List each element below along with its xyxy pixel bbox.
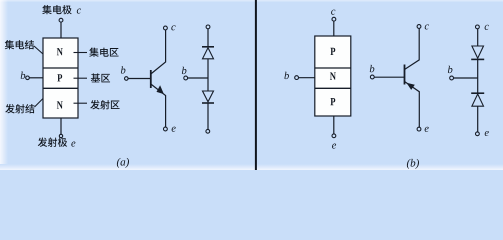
base wire (a box) (30, 77, 44, 79)
wire D2 to node e (a) (207, 103, 209, 129)
NPN structure box (a) (43, 38, 78, 118)
node c terminal circle (a) (59, 18, 63, 22)
label b diode chain (b) (448, 66, 453, 73)
node e circle diode chain (b) (476, 132, 480, 136)
emitter junction line J2 (a) (43, 87, 78, 89)
region label P (collector region, b) (330, 98, 335, 105)
diode D2 b-e junction (a): triangle (pointing down) (203, 91, 214, 102)
node b circle Q2 (370, 75, 374, 79)
region label N (base region, b) (330, 72, 336, 79)
diode D4 e-b junction (b): cathode bar (471, 92, 484, 94)
diode D4 triangle (pointing up) (472, 94, 484, 106)
label e (b box) (332, 144, 336, 149)
transistor Q1 NPN symbol: label b (121, 66, 126, 73)
emitter wire (b box) (333, 116, 335, 134)
node c circle (b box) (332, 17, 336, 21)
node e circle Q2 (417, 127, 421, 131)
node e circle (b box) (332, 134, 336, 138)
node c circle Q1 (164, 26, 168, 30)
node b circle (b box) (295, 76, 299, 80)
leader tick base region (74, 77, 88, 79)
junction line J2 (b) (315, 87, 351, 89)
label 发射极 e (emitter electrode) (38, 138, 76, 147)
label c (b box) (331, 10, 335, 15)
diode D3 cathode bar (471, 58, 484, 60)
base bar Q2 (404, 65, 406, 85)
collector junction line J1 (a) (43, 67, 78, 69)
label b (b box) (284, 72, 289, 79)
label 集电结 (collector junction) (5, 40, 34, 49)
region label N (collector region) (57, 48, 63, 55)
diode D3 c-b junction (b): triangle (pointing down) (472, 46, 484, 58)
label 发射区 (emitter region) (90, 100, 119, 109)
diode D2 cathode bar (202, 102, 214, 104)
wire c to D1 (a) (207, 29, 209, 47)
region label P (base region) (57, 74, 62, 81)
node e terminal circle (a) (59, 134, 62, 137)
transistor Q2 PNP symbol: label b (370, 65, 375, 72)
caption (a) (117, 158, 129, 168)
label 集电极 c (collector electrode) (42, 5, 81, 14)
node b circle diode chain (a) (184, 76, 188, 80)
label b diode chain (a) (182, 67, 187, 74)
wire b to chain (b) (454, 77, 478, 79)
label b and base terminal (a box) (21, 72, 26, 79)
base wire (b box) (299, 77, 315, 79)
label 集电区 (collector region) (89, 48, 118, 57)
label c Q2 (425, 24, 429, 29)
label 发射结 (emitter junction) (5, 104, 34, 113)
base wire Q1 (128, 78, 151, 80)
region label P (emitter region, b) (330, 48, 335, 55)
caption (b) (407, 159, 419, 169)
wire D1 to node b (a) (207, 59, 209, 91)
diode D1 triangle (pointing up) (203, 48, 214, 59)
label c Q1 (171, 25, 175, 30)
collector wire (b box) (333, 21, 335, 36)
panel divider (255, 0, 257, 170)
wire D4 to node e (b) (477, 106, 479, 132)
node b circle (a box) (26, 76, 30, 80)
wire D3 to node b (b) (477, 59, 479, 93)
node e circle diode chain (a) (206, 129, 210, 133)
base wire Q2 (374, 76, 404, 78)
wire c to D3 (b) (477, 29, 479, 46)
region label N (emitter region) (57, 101, 63, 108)
diode D1 b-c junction (a): cathode bar (202, 46, 214, 48)
node c circle Q2 (417, 25, 421, 29)
label c diode chain (b) (485, 25, 489, 30)
label e diode chain (b) (485, 131, 489, 136)
label e Q1 (172, 127, 176, 132)
emitter lead Q2 with PNP arrow (405, 82, 420, 128)
leader tick collector region (74, 52, 88, 54)
emitter wire (a) (60, 118, 62, 134)
leader line to collector junction (34, 46, 43, 54)
base bar Q1 (150, 70, 152, 88)
collector wire (a) (60, 22, 62, 38)
node c circle diode chain (a) (206, 25, 210, 29)
label e Q2 (425, 127, 429, 132)
node e circle Q1 (164, 127, 168, 131)
junction line J1 (b) (315, 67, 351, 69)
wire b to chain (a) (188, 77, 208, 79)
collector lead Q2 (405, 28, 420, 69)
collector lead Q1 (151, 30, 166, 74)
leader tick emitter region (74, 102, 88, 104)
node c circle diode chain (b) (476, 25, 480, 29)
emitter lead Q1 with NPN arrow (151, 84, 166, 127)
node b circle Q1 (125, 77, 129, 81)
leader line to emitter junction (35, 99, 44, 108)
label 基区 (base region) (91, 73, 110, 82)
node b circle diode chain (b) (450, 76, 454, 80)
PNP structure box (b) (315, 36, 351, 116)
